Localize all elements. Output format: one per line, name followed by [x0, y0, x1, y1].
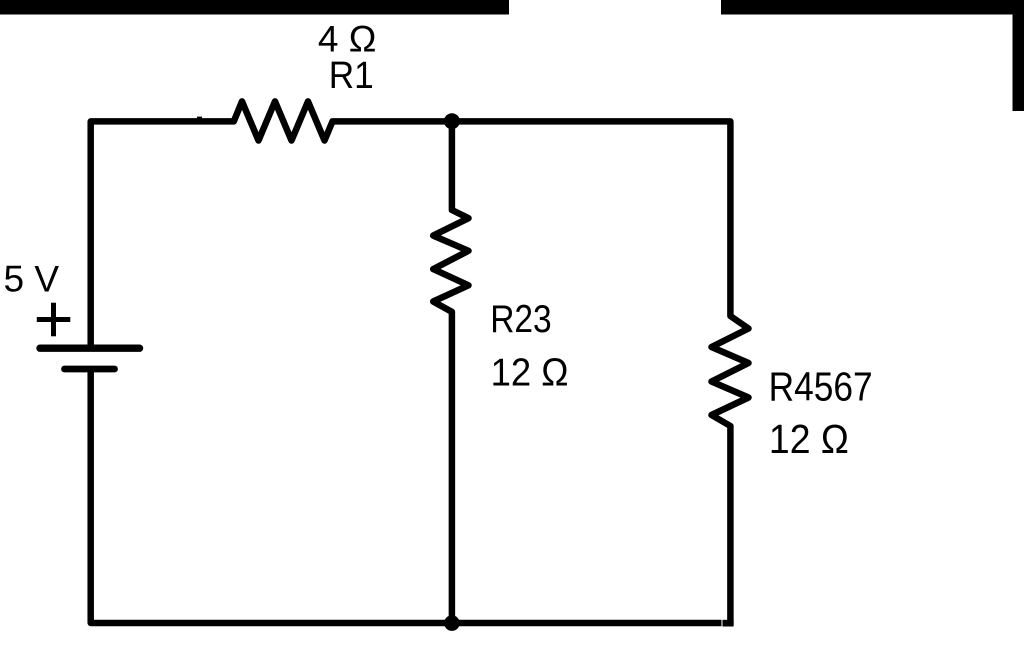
- svg-text:12 Ω: 12 Ω: [491, 352, 569, 395]
- svg-text:R23: R23: [490, 298, 552, 341]
- svg-text:5 V: 5 V: [4, 259, 60, 300]
- svg-text:12 Ω: 12 Ω: [769, 416, 849, 462]
- svg-text:4 Ω: 4 Ω: [318, 18, 377, 59]
- svg-text:R4567: R4567: [769, 363, 873, 409]
- svg-text:R1: R1: [329, 55, 374, 97]
